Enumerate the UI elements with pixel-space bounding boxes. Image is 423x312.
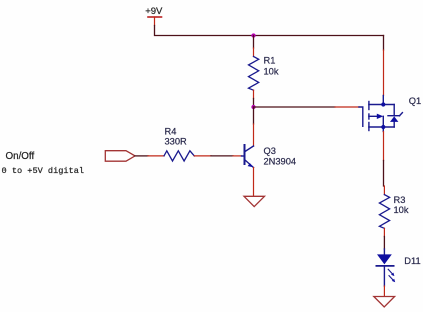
svg-text:R1: R1 [264,56,276,66]
wire connector to R4 [135,155,148,157]
ground under Q3 [244,196,265,206]
mosfet Q1 body [359,96,402,132]
source pin stub [382,127,384,132]
channel segment bottom [368,123,370,131]
connector On/Off port [105,151,135,162]
body diode zener tick [400,113,403,116]
wire node down to Q3 collector [253,107,255,124]
svg-text:D11: D11 [404,256,420,266]
pin Q3 collector (red) [253,124,255,146]
pin R1 bottom [253,90,255,98]
svg-text:0 to +5V digital: 0 to +5V digital [2,166,85,176]
mosfet Q1 bulk arrow [377,114,384,119]
gate lead + plate [359,107,363,126]
wire Q1 source to R3 [383,161,385,187]
body diode vertical bottom [393,122,395,127]
pin R4 left (red) [148,155,164,157]
pin R3 top (red) [383,186,385,195]
pin Q3 emitter (red) [253,168,255,197]
node junction dot top rail / R1 [251,33,255,37]
led D11 triangle [377,254,392,264]
svg-text:330R: 330R [165,137,188,147]
pin R4 right (red) [194,155,211,157]
led D11 light arrow 1 [388,269,394,276]
svg-text:Q1: Q1 [409,96,421,106]
led D11 cathode lead [383,266,385,286]
node dot Q1 source [381,125,385,129]
pin R1 top [253,48,255,57]
bulk bar [369,115,378,117]
resistor R4 body [164,151,194,161]
mosfet Q1 body diode triangle [390,116,398,122]
power symbol bar [148,16,162,18]
pin R3 bottom (red) [383,228,385,236]
wire R3 to D11 [383,237,385,250]
pin Q1 gate (red) [335,106,359,108]
wire +9V down and across top rail [155,26,384,36]
svg-text:+9V: +9V [145,6,163,17]
channel segment top [368,102,370,110]
pin Q1 drain (red) [383,50,385,96]
led D11 anode lead [383,249,385,255]
wire R1 bottom to node [253,99,255,108]
transistor Q3 body [242,145,254,168]
ground under D11 [374,297,395,307]
resistor R3 body [379,195,389,229]
pin Q3 base (red) [233,155,242,157]
wire D11 to ground (red) [383,286,385,296]
resistor R1 body [249,57,259,91]
svg-text:2N3904: 2N3904 [264,156,297,166]
transistor Q3 emitter arrow [248,163,254,167]
power pin [154,17,156,26]
bulk tie down to source [382,116,384,127]
svg-text:On/Off: On/Off [6,151,35,162]
svg-text:R4: R4 [165,126,177,136]
svg-text:10k: 10k [264,66,279,76]
node dot Q1 drain [381,102,385,106]
wire node to Q1 gate [254,106,336,108]
pin Q1 source to wire (red) [383,132,385,161]
svg-text:R3: R3 [394,195,406,205]
wire R4 to Q3 base [211,155,233,157]
wire top rail down to Q1 drain [383,36,385,51]
drain pin stub [382,96,384,105]
led D11 light arrow 2 [389,276,395,283]
svg-text:Q3: Q3 [264,146,276,156]
node junction dot R1/gate/collector [251,105,255,109]
led D11 cathode bar [376,265,393,267]
channel segment middle [368,114,370,119]
body diode vertical top [393,105,395,116]
body diode cathode bar [388,115,400,117]
svg-text:10k: 10k [394,205,409,215]
wire rail to R1 top [253,36,255,49]
source bar [369,126,394,128]
drain bar [369,104,394,106]
